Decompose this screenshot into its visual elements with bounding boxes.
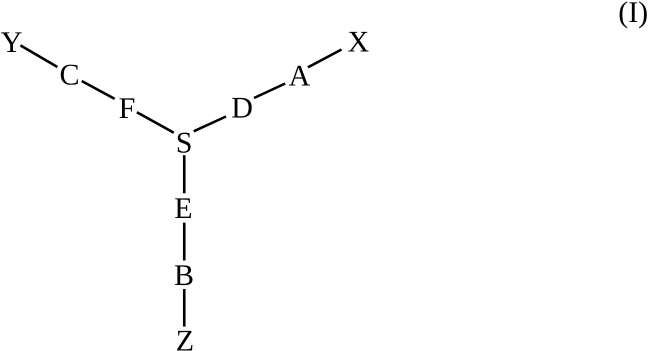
wire S-D [194,117,226,132]
svg-text:E: E [174,192,192,225]
svg-text:A: A [289,59,311,92]
wire E-B [183,223,186,261]
svg-text:Z: Z [176,325,194,351]
svg-text:S: S [176,127,193,160]
wire B-Z [183,289,186,327]
wire A-X [308,50,342,68]
wire D-A [254,84,285,99]
svg-text:C: C [59,59,79,92]
svg-text:B: B [174,259,194,292]
wire C-F [82,81,115,99]
wire F-S [137,112,174,133]
wire Y-C [20,45,57,67]
svg-text:D: D [231,92,253,125]
svg-text:(I): (I) [618,0,648,29]
wire S-E [183,155,186,193]
svg-text:F: F [119,92,136,125]
svg-text:X: X [348,26,370,59]
svg-text:Y: Y [1,26,23,59]
